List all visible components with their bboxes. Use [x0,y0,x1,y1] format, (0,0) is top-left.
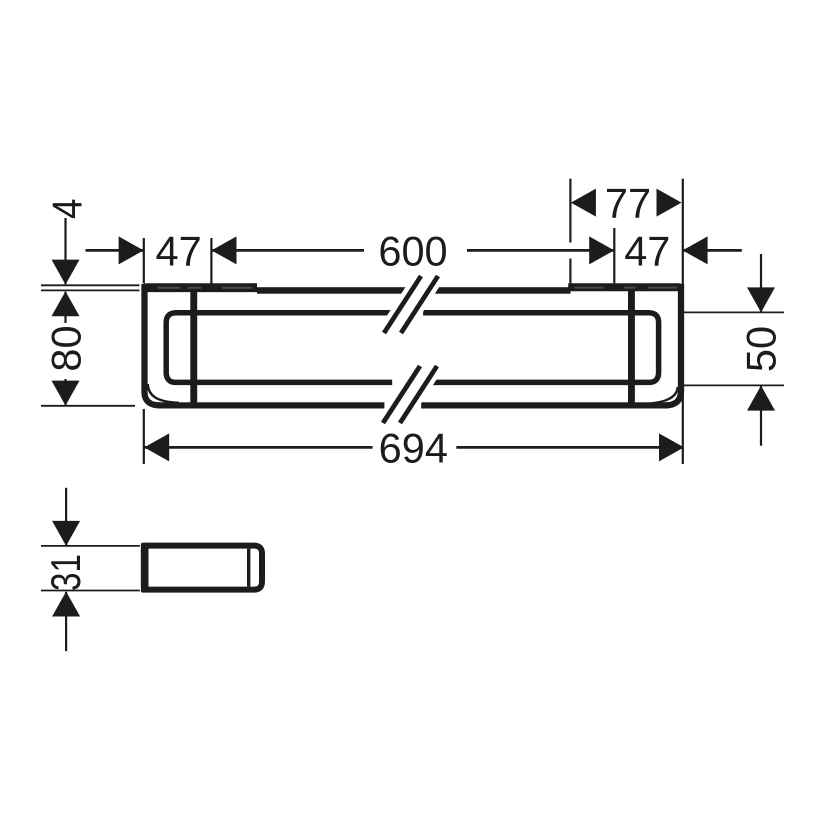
svg-text:77: 77 [605,180,651,227]
svg-text:50: 50 [737,326,784,372]
svg-text:47: 47 [624,228,670,275]
svg-text:80: 80 [42,325,89,371]
svg-text:47: 47 [156,228,202,275]
svg-text:600: 600 [378,228,447,275]
svg-text:4: 4 [43,199,90,220]
svg-text:31: 31 [42,554,89,591]
svg-text:694: 694 [379,425,448,472]
